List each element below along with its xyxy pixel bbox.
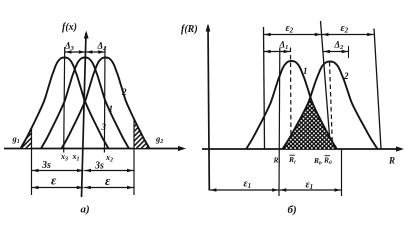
hatched area g2 xyxy=(134,119,150,149)
node eps1 right extension xyxy=(341,149,343,196)
svg-text:2: 2 xyxy=(343,71,349,81)
hatched area g1 xyxy=(22,128,32,149)
node R1 line xyxy=(278,48,281,196)
curve 2 distribution xyxy=(62,58,150,149)
node x2 line xyxy=(103,47,106,153)
wire left y-axis xyxy=(82,33,87,197)
svg-text:R: R xyxy=(388,156,395,166)
node left extension line xyxy=(31,128,33,196)
svg-text:3s: 3s xyxy=(94,161,104,172)
svg-text:2: 2 xyxy=(121,87,127,97)
svg-text:3s: 3s xyxy=(41,160,51,171)
node apex vertical line xyxy=(309,97,312,149)
svg-text:f(R): f(R) xyxy=(181,24,198,35)
svg-text:ε: ε xyxy=(105,173,111,188)
node peak1 dashed line xyxy=(290,48,293,149)
svg-text:3: 3 xyxy=(101,122,107,132)
svg-text:ε: ε xyxy=(51,173,57,188)
wire 3s dimension row xyxy=(32,170,84,172)
wire Delta1 dimension xyxy=(264,51,290,53)
node peak2 dashed line xyxy=(330,62,333,149)
curve 3 distribution xyxy=(21,58,109,149)
svg-text:f(x): f(x) xyxy=(62,22,77,33)
wire Delta2 dimension xyxy=(323,51,348,53)
svg-text:1: 1 xyxy=(303,66,308,76)
curve 1 right plot xyxy=(246,61,337,149)
node right extension line xyxy=(133,119,135,196)
node x3 line xyxy=(63,47,66,153)
svg-text:а): а) xyxy=(81,204,90,216)
curve 2 right plot xyxy=(283,62,378,150)
wire epsilon2 dimension row xyxy=(264,34,321,36)
wire right x-axis xyxy=(202,148,400,150)
svg-text:1: 1 xyxy=(109,104,114,114)
wire epsilon dimension row xyxy=(32,187,84,189)
wire right y-axis xyxy=(208,26,209,191)
wire epsilon1 dimension row xyxy=(210,189,279,191)
node right frame line xyxy=(374,29,381,149)
node left frame line xyxy=(264,27,265,149)
wire left x-axis xyxy=(4,148,182,150)
curve 1 distribution xyxy=(41,58,129,149)
svg-text:б): б) xyxy=(288,204,297,216)
wire delta dimension row left plot xyxy=(65,51,86,53)
shaded overlap region xyxy=(283,97,337,149)
node center frame line xyxy=(321,21,331,149)
